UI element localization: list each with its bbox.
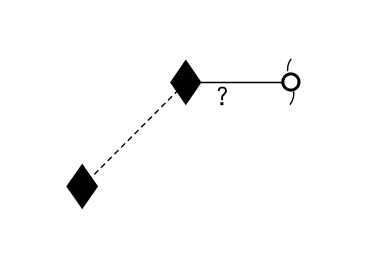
wire: solid linkage to reducing end — [186, 82, 291, 84]
reducing end: upper squiggle — [288, 59, 292, 71]
reducing end: circle — [283, 74, 299, 90]
node: lower diamond residue — [66, 164, 98, 210]
wire: dashed linkage between diamonds — [82, 82, 186, 186]
node: upper diamond residue — [170, 59, 201, 105]
label: unknown linkage "?" (drawn as path) — [219, 88, 226, 106]
reducing end: lower squiggle — [290, 92, 294, 105]
